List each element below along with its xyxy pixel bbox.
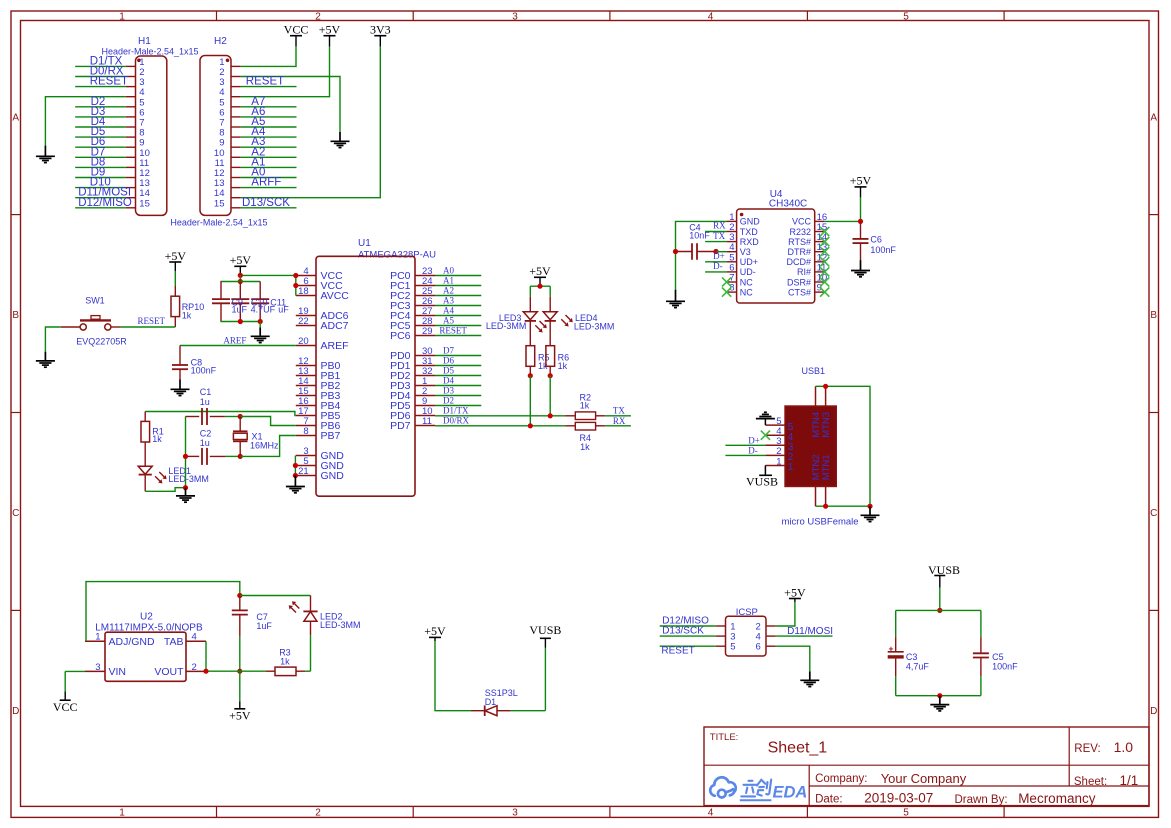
svg-text:D: D — [12, 706, 19, 717]
switch SW1 pushbutton — [80, 319, 111, 321]
junction at +5V flag — [238, 273, 243, 278]
IC U1 right pins — [415, 275, 435, 277]
junction C7 at VOUT rail — [237, 669, 242, 674]
no-connect X USB pin4 — [761, 431, 770, 440]
svg-text:1: 1 — [788, 462, 794, 473]
wire H1 pin1 net D1/TX — [75, 65, 126, 67]
svg-text:uF: uF — [278, 305, 289, 315]
LED LED1 emission arrows — [159, 472, 164, 477]
wire +5V to D1 — [435, 641, 471, 711]
junction LED4 chain at TX wire — [548, 413, 553, 418]
wire C5 branch top — [980, 610, 982, 637]
junction U4 VCC C6 — [858, 219, 863, 224]
ground at capacitor rail — [259, 322, 261, 328]
connector ICSP body — [726, 616, 767, 656]
wire H2 pin7 net A5 — [241, 126, 297, 128]
wire X1 top to U1 PB6 — [240, 417, 296, 426]
svg-text:22: 22 — [298, 316, 309, 327]
junction U1 GND pin21 — [293, 473, 298, 478]
svg-text:D2: D2 — [443, 396, 454, 406]
svg-text:1: 1 — [95, 632, 100, 643]
wire USB D- — [725, 454, 765, 456]
wire H1 pin14 net D11/MOSI — [75, 197, 126, 199]
USB1 MTN2 MTN1 bottom pins — [815, 487, 817, 507]
svg-text:D-: D- — [748, 445, 758, 455]
svg-text:VCC: VCC — [792, 217, 812, 227]
wire capacitor bottom rail — [220, 321, 260, 323]
capacitor C11 — [259, 282, 261, 300]
svg-text:+5V: +5V — [319, 23, 341, 37]
power flag +5V at LEDs — [534, 276, 546, 278]
svg-text:GND: GND — [740, 217, 761, 227]
svg-text:A4: A4 — [443, 306, 454, 316]
svg-text:2: 2 — [315, 12, 321, 23]
capacitor C10 — [239, 282, 241, 300]
connector H2 body — [200, 56, 231, 216]
wire U4 UD+ net D+ — [705, 261, 727, 263]
svg-text:LED-3MM: LED-3MM — [320, 620, 361, 630]
wire RESET from SW1 to RP10 — [121, 326, 175, 328]
svg-text:GND: GND — [321, 470, 345, 482]
ground at C1 C2 rail — [185, 488, 187, 496]
ground H2 pin2 — [339, 132, 341, 141]
wire H2 pin3 net RESET — [241, 86, 297, 88]
svg-text:A0: A0 — [443, 266, 454, 276]
wire U1 net A4 — [435, 315, 481, 317]
power flag VUSB at D1 — [544, 638, 546, 648]
LED LED3 — [529, 297, 531, 312]
junction R5 bottom — [528, 373, 533, 378]
wire +5V to U4 VCC — [860, 197, 862, 221]
svg-text:H2: H2 — [214, 36, 227, 47]
svg-text:8: 8 — [303, 426, 308, 437]
power flag +5V at D1 — [429, 636, 441, 638]
junction filter bottom — [937, 693, 942, 698]
IC U2 pins — [85, 640, 105, 642]
wire H2 pin6 net A6 — [241, 116, 297, 118]
svg-text:AVCC: AVCC — [321, 290, 350, 302]
ground H1 pin4 — [44, 146, 46, 157]
wire H1 pin12 net D9 — [75, 177, 126, 179]
svg-text:D7: D7 — [443, 346, 454, 356]
svg-text:1k: 1k — [182, 311, 192, 321]
svg-text:H1: H1 — [138, 36, 151, 47]
svg-text:1: 1 — [119, 808, 125, 819]
svg-text:TXD: TXD — [740, 227, 759, 237]
IC U1 body — [316, 256, 415, 496]
svg-text:+5V: +5V — [230, 253, 252, 267]
ground at U1 — [294, 476, 296, 487]
wire VOUT rail — [206, 670, 265, 672]
svg-text:RESET: RESET — [246, 76, 284, 88]
ground at C8 — [179, 380, 181, 390]
no-connect X U4 pin9 — [820, 288, 829, 297]
junction ground corner — [867, 504, 872, 509]
svg-text:2: 2 — [315, 808, 321, 819]
svg-text:AREF: AREF — [223, 335, 246, 345]
svg-text:RESET: RESET — [90, 76, 128, 88]
wire RX right — [605, 425, 631, 427]
junction cap rail bottom C11 — [258, 319, 263, 324]
wire ICSP pin5 net RESET — [660, 645, 716, 647]
svg-text:+: + — [889, 643, 894, 653]
wire U1 PD6 net D1/TX — [435, 415, 565, 417]
svg-text:Sheet:: Sheet: — [1074, 776, 1107, 788]
no-connect X U4 pin7 — [722, 277, 731, 286]
power flag +5V at U1 VCC — [234, 265, 246, 267]
wire R5 to RX net — [529, 376, 531, 426]
svg-text:D4: D4 — [443, 376, 454, 386]
power flag VCC top — [290, 35, 302, 37]
svg-text:A1: A1 — [443, 276, 454, 286]
capacitor C9 — [220, 282, 222, 300]
resistor RP10 — [174, 286, 176, 296]
wire U1 net D5 — [435, 375, 481, 377]
wire C5 branch bottom — [980, 676, 982, 696]
svg-text:DCD#: DCD# — [786, 257, 811, 267]
wire H2 pin14 to 3V3 — [241, 47, 381, 198]
svg-text:ADJ/GND: ADJ/GND — [109, 636, 156, 648]
wire H2 pin4 to +5V — [241, 47, 330, 97]
junction ground rail — [183, 485, 188, 490]
svg-text:2019-03-07: 2019-03-07 — [864, 791, 933, 806]
junction LED3 chain at RX wire — [528, 423, 533, 428]
svg-text:D: D — [1150, 706, 1157, 717]
LED LED2 — [310, 596, 312, 612]
junction C2 left — [183, 454, 188, 459]
power flag +5V below U2 — [239, 701, 241, 709]
capacitor C8 — [179, 346, 181, 366]
svg-text:D1/TX: D1/TX — [443, 406, 469, 416]
svg-text:4: 4 — [708, 808, 714, 819]
wire H1 pin10 net D7 — [75, 156, 126, 158]
wire H2 pin2 to ground — [241, 77, 340, 133]
svg-text:3V3: 3V3 — [370, 23, 391, 37]
wire rail to LED4 — [549, 286, 551, 297]
junction TAB VOUT — [203, 669, 208, 674]
wire H2 pin15 net D13/SCK — [241, 207, 297, 209]
wire C2 to PB7 — [226, 455, 240, 457]
svg-text:3: 3 — [512, 808, 518, 819]
capacitor C5 — [980, 637, 982, 653]
wire +5V rail to U1 VCC pins — [240, 274, 295, 276]
USB1 MTN4 MTN3 top pins — [815, 386, 817, 406]
wire ICSP pin3 net D13/SCK — [660, 635, 716, 637]
wire U1 net D6 — [435, 365, 481, 367]
resistor R6 — [546, 346, 555, 367]
svg-text:Sheet_1: Sheet_1 — [768, 740, 828, 757]
wire AREF to U1 pin20 — [180, 345, 296, 347]
svg-text:20: 20 — [298, 336, 309, 347]
wire +5V to RP10 — [174, 271, 176, 286]
svg-text:REV:: REV: — [1074, 743, 1100, 755]
svg-text:C2: C2 — [200, 428, 212, 438]
wire U1 net A1 — [435, 285, 481, 287]
wire C1 to PB6 — [225, 416, 240, 418]
EasyEDA logo text — [741, 780, 771, 797]
svg-text:PD7: PD7 — [390, 420, 411, 432]
wire H2 pin8 net A4 — [241, 136, 297, 138]
svg-text:D-: D- — [713, 261, 723, 271]
svg-text:1: 1 — [119, 12, 125, 23]
svg-text:VOUT: VOUT — [154, 666, 184, 678]
svg-text:+5V: +5V — [424, 624, 446, 638]
svg-text:A3: A3 — [443, 296, 454, 306]
svg-text:TITLE:: TITLE: — [710, 732, 739, 743]
LED LED4 emission arrows — [566, 315, 571, 320]
no-connect X U4 pin10 — [820, 277, 829, 286]
svg-text:RESET: RESET — [138, 316, 166, 326]
title block outline — [704, 727, 1149, 806]
power flag VCC below U2 — [64, 691, 66, 700]
connector H1 body — [136, 56, 167, 215]
svg-text:LED-3MM: LED-3MM — [168, 474, 209, 484]
svg-text:1k: 1k — [558, 361, 568, 371]
wire ICSP pin2 to +5V — [776, 602, 795, 626]
svg-text:A2: A2 — [443, 286, 454, 296]
no-connect X U4 pin8 — [722, 288, 731, 297]
frame column ticks top — [216, 11, 218, 21]
svg-text:C6: C6 — [870, 235, 882, 245]
svg-text:D1: D1 — [485, 697, 497, 707]
svg-text:PB7: PB7 — [321, 430, 341, 442]
wire ICSP pin1 net D12/MISO — [660, 625, 716, 627]
capacitor C3 polarized — [895, 637, 897, 651]
ground at SW1 — [44, 352, 46, 361]
svg-text:1u: 1u — [200, 397, 210, 407]
power flag VUSB at USB pin1 — [764, 466, 766, 476]
USB1 left pins — [765, 424, 785, 426]
svg-text:1.0: 1.0 — [1114, 739, 1134, 755]
LED LED1 — [138, 466, 152, 474]
svg-text:15: 15 — [214, 198, 225, 209]
svg-text:+5V: +5V — [165, 249, 187, 263]
svg-text:1k: 1k — [152, 434, 162, 444]
power flag VUSB at C3 — [939, 576, 941, 588]
IC U4 left pins — [727, 220, 737, 222]
wire USB D+ — [725, 444, 765, 446]
svg-text:4: 4 — [192, 632, 197, 643]
wire C3 branch bottom — [895, 676, 897, 696]
svg-text:3: 3 — [95, 662, 100, 673]
power flag +5V at ICSP — [789, 598, 801, 600]
svg-text:UD+: UD+ — [740, 257, 758, 267]
svg-text:VCC: VCC — [284, 23, 309, 37]
wire filter bottom rail — [896, 695, 981, 697]
svg-text:EDA: EDA — [773, 784, 808, 802]
svg-text:100nF: 100nF — [191, 365, 217, 375]
wire H2 pin13 net ARFF — [241, 187, 297, 189]
svg-text:RTS#: RTS# — [788, 237, 811, 247]
capacitor C7 — [239, 596, 241, 611]
svg-text:RESET: RESET — [661, 645, 694, 656]
wire X1 bottom to U1 PB7 — [240, 436, 296, 457]
junction C4 left — [673, 249, 678, 254]
ground at C6 — [860, 260, 862, 270]
svg-text:VUSB: VUSB — [529, 623, 561, 637]
svg-text:UD-: UD- — [740, 267, 756, 277]
svg-text:5: 5 — [730, 642, 735, 653]
wire H1 pin4 to ground — [45, 97, 125, 146]
svg-text:A: A — [12, 112, 19, 123]
junction R6 bottom — [548, 373, 553, 378]
svg-text:AREF: AREF — [321, 340, 349, 352]
wire C7 top rail to LED2 — [240, 595, 311, 597]
wire U1 net A3 — [435, 305, 481, 307]
resistor R1 — [144, 412, 146, 422]
svg-text:100nF: 100nF — [870, 245, 896, 255]
svg-text:4.7UF: 4.7UF — [251, 305, 276, 315]
svg-text:NC: NC — [740, 277, 753, 287]
wire H1 pin6 net D3 — [75, 116, 126, 118]
svg-text:R232: R232 — [789, 227, 811, 237]
junction X1 top — [238, 414, 243, 419]
power flag +5V at RP10 — [169, 261, 181, 263]
svg-text:D6: D6 — [443, 356, 454, 366]
wire VOUT to +5V flag — [239, 671, 241, 701]
diode D1 — [471, 710, 485, 712]
wire H2 pin11 net A1 — [241, 166, 297, 168]
svg-text:DTR#: DTR# — [787, 247, 811, 257]
wire H2 pin12 net A0 — [241, 177, 297, 179]
junction U1 VCC pin4 — [293, 273, 298, 278]
junction MTN3 top — [823, 384, 828, 389]
svg-text:1k: 1k — [580, 401, 590, 411]
wire U4 UD- net D- — [705, 271, 727, 273]
frame row ticks sides — [11, 214, 21, 216]
capacitor C1 — [186, 416, 200, 418]
svg-text:NC: NC — [740, 287, 753, 297]
svg-text:TX: TX — [713, 231, 725, 241]
wire capacitor top rail — [220, 281, 260, 283]
IC U1 left pins — [296, 275, 316, 277]
wire ICSP pin4 net D11/MOSI — [776, 635, 833, 637]
svg-text:A5: A5 — [443, 316, 454, 326]
wire H2 pin1 to VCC — [241, 47, 296, 67]
wire +5V down to cap rail — [239, 275, 241, 281]
wire TX right — [605, 415, 631, 417]
crystal X1 — [239, 417, 241, 432]
junction filter top — [937, 608, 942, 613]
svg-text:D+: D+ — [748, 435, 760, 445]
svg-text:D11/MOSI: D11/MOSI — [787, 626, 833, 637]
junction cap rail bottom C10 — [238, 319, 243, 324]
resistor R3 — [265, 670, 275, 672]
svg-text:11: 11 — [422, 416, 432, 427]
wire R6 to TX net — [549, 376, 551, 416]
resistor R4 — [565, 425, 575, 427]
wire C4 to U4 V3 — [716, 251, 727, 253]
wire H1 pin2 net D0/RX — [75, 76, 126, 78]
wire LED2 to R3 — [310, 635, 312, 671]
svg-text:16MHz: 16MHz — [250, 441, 279, 451]
svg-text:18: 18 — [298, 286, 309, 297]
ground at USB1 — [869, 506, 871, 515]
junction cap rail top — [238, 279, 243, 284]
svg-text:D13/SCK: D13/SCK — [242, 197, 290, 209]
svg-text:CH340C: CH340C — [769, 198, 807, 209]
svg-text:B: B — [1150, 310, 1157, 321]
no-connect X U4 pin14 — [820, 237, 829, 246]
svg-text:D0/RX: D0/RX — [443, 416, 470, 426]
junction MTN1 bottom — [823, 504, 828, 509]
svg-text:V3: V3 — [740, 247, 751, 257]
svg-text:1: 1 — [776, 456, 781, 467]
svg-text:VUSB: VUSB — [746, 475, 778, 489]
wire U2 ADJ loop to C7 — [86, 582, 240, 642]
wire H1 pin13 net D10 — [75, 187, 126, 189]
wire LED1 to ground rail — [145, 488, 185, 492]
svg-text:+5V: +5V — [784, 585, 806, 599]
svg-text:+5V: +5V — [850, 174, 872, 188]
junction C4 right — [713, 249, 718, 254]
svg-text:C1: C1 — [200, 387, 212, 397]
svg-text:D12/MISO: D12/MISO — [78, 197, 132, 209]
wire +5V LED rail — [530, 285, 550, 287]
wire VUSB to filter rail — [939, 588, 941, 611]
power flag +5V at U4 — [855, 186, 867, 188]
wire PB5 net to R1 — [145, 412, 296, 416]
wire U1 PC6 net RESET — [435, 335, 481, 337]
junction X1 bottom — [238, 454, 243, 459]
svg-text:1uF: 1uF — [256, 621, 272, 631]
svg-text:1k: 1k — [580, 442, 590, 452]
connector H1 pins — [126, 65, 136, 67]
wire U1 net A2 — [435, 295, 481, 297]
wire U1 net D7 — [435, 355, 481, 357]
wire U4 RXD net TX — [705, 241, 727, 243]
wire H1 pin9 net D6 — [75, 146, 126, 148]
LED LED2 emission arrows — [291, 608, 296, 613]
resistor R2 — [565, 415, 575, 417]
svg-text:4,7uF: 4,7uF — [906, 661, 930, 671]
svg-text:Header-Male-2.54_1x15: Header-Male-2.54_1x15 — [170, 218, 267, 228]
wire filter top rail — [896, 609, 981, 611]
capacitor C4 — [676, 251, 692, 253]
svg-text:29: 29 — [422, 326, 433, 337]
svg-text:Company:: Company: — [815, 773, 867, 785]
resistor R5 — [526, 346, 535, 367]
junction LED rail — [537, 284, 542, 289]
svg-text:D13/SCK: D13/SCK — [662, 626, 704, 637]
svg-text:TX: TX — [613, 406, 625, 416]
svg-text:100nF: 100nF — [992, 661, 1018, 671]
svg-text:RX: RX — [713, 221, 726, 231]
svg-text:15: 15 — [139, 198, 150, 209]
wire U1 GND pins — [294, 456, 296, 476]
svg-text:RX: RX — [613, 416, 626, 426]
svg-text:21: 21 — [298, 466, 309, 477]
svg-text:ADC7: ADC7 — [321, 320, 349, 332]
svg-text:CTS#: CTS# — [788, 287, 811, 297]
svg-text:Your Company: Your Company — [881, 771, 967, 786]
ground at ICSP — [809, 671, 811, 680]
svg-text:C: C — [1150, 508, 1157, 519]
svg-text:U1: U1 — [358, 238, 371, 249]
wire U1 PD7 net D0/RX — [435, 425, 565, 427]
junction U1 VCC pin6 — [293, 283, 298, 288]
svg-text:DSR#: DSR# — [787, 277, 811, 287]
svg-text:D+: D+ — [713, 251, 725, 261]
wire U4 TXD net RX — [705, 231, 727, 233]
connector H2 pins — [231, 65, 241, 67]
svg-text:LED-3MM: LED-3MM — [574, 322, 615, 332]
svg-text:LED-3MM: LED-3MM — [486, 321, 527, 331]
svg-text:1u: 1u — [200, 438, 210, 448]
no-connect X U4 pin15 — [820, 227, 829, 236]
LED LED3 emission arrows — [540, 321, 545, 326]
wire H2 pin5 net A7 — [241, 106, 297, 108]
